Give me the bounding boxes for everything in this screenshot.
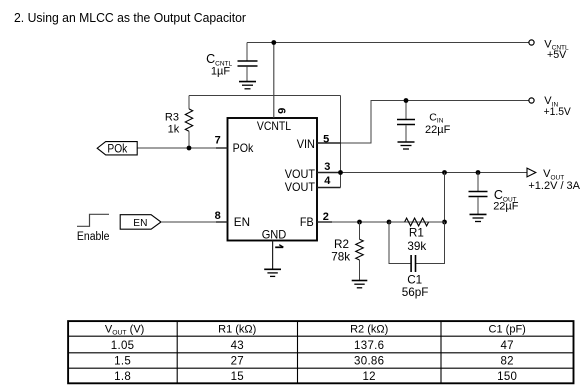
- svg-text:43: 43: [231, 340, 244, 352]
- label C1 56pF: [402, 273, 429, 299]
- junction node VOUT / R1C1 riser: [442, 170, 447, 175]
- wire VIN (pin 5): [317, 101, 529, 144]
- pin number 1 (rotated): [275, 245, 283, 248]
- capacitor C_OUT: [469, 173, 488, 215]
- svg-text:6: 6: [275, 108, 287, 114]
- label C_CNTL: [206, 52, 232, 78]
- svg-text:+1.5V: +1.5V: [544, 106, 572, 118]
- junction node FB / C1 left: [387, 220, 392, 225]
- svg-text:VIN: VIN: [297, 137, 315, 151]
- IC U1 body: [228, 118, 318, 241]
- svg-text:150: 150: [497, 371, 517, 383]
- Enable step waveform: [77, 214, 109, 226]
- junction node FB / R1 right: [442, 220, 447, 225]
- wire POk (pin 7): [137, 147, 217, 149]
- svg-text:Enable: Enable: [77, 231, 110, 243]
- svg-text:VOUT: VOUT: [285, 180, 316, 194]
- capacitor C_IN: [397, 101, 415, 142]
- wire VIN stub at pin 5: [317, 142, 341, 144]
- resistor R1: [389, 218, 445, 226]
- label R3 1k: [165, 112, 180, 136]
- svg-text:82: 82: [500, 356, 513, 368]
- table: parameter values: [68, 321, 573, 383]
- label C_OUT 22uF: [493, 188, 519, 212]
- wire VOUT stub at pin 4: [317, 187, 341, 189]
- wire FB stub at pin 2: [317, 221, 332, 223]
- svg-text:22µF: 22µF: [425, 124, 451, 136]
- svg-text:27: 27: [231, 356, 244, 368]
- svg-text:EN: EN: [133, 217, 147, 229]
- svg-text:15: 15: [231, 371, 244, 383]
- label R2 78k: [331, 238, 350, 264]
- junction node POk / R3: [187, 146, 192, 151]
- svg-text:POk: POk: [107, 143, 127, 155]
- svg-text:R1 (kΩ): R1 (kΩ): [218, 323, 256, 335]
- wire VCNTL rail: [247, 42, 529, 44]
- svg-text:FB: FB: [300, 215, 314, 229]
- wire R3 top rail: [189, 95, 341, 97]
- svg-text:1k: 1k: [168, 123, 180, 135]
- ground (C_OUT): [470, 214, 487, 221]
- svg-text:R3: R3: [165, 112, 179, 124]
- ground (C_IN): [398, 142, 415, 149]
- svg-text:39k: 39k: [407, 240, 426, 253]
- svg-text:R2: R2: [334, 238, 349, 251]
- wire VOUT rail (pin 3): [317, 172, 527, 174]
- label R1 39k: [407, 227, 426, 253]
- svg-text:47: 47: [500, 340, 513, 352]
- svg-text:R2 (kΩ): R2 (kΩ): [350, 323, 388, 335]
- svg-text:EN: EN: [234, 215, 250, 229]
- svg-text:3: 3: [324, 161, 330, 173]
- ground (C_CNTL): [239, 82, 256, 89]
- junction node VIN rail / C_IN: [404, 98, 409, 103]
- svg-text:R1: R1: [409, 227, 424, 240]
- capacitor C1 branch wires: [389, 222, 445, 264]
- terminal V_CNTL: [529, 40, 534, 45]
- svg-text:VCNTL: VCNTL: [257, 119, 291, 133]
- junction node VOUT / C_OUT: [476, 170, 481, 175]
- svg-text:1.5: 1.5: [114, 356, 131, 368]
- POk output flag: [97, 142, 137, 156]
- wire riser R3 rail to VOUT/pin4: [340, 96, 342, 188]
- label V_OUT +1.2V / 3A: [528, 168, 580, 192]
- wire EN (pin 8): [161, 221, 217, 223]
- table row 2 values: [114, 356, 514, 368]
- resistor R2: [356, 222, 364, 280]
- junction node FB / R2: [357, 220, 362, 225]
- junction node VOUT / R3 riser: [338, 170, 343, 175]
- wire EN stub at pin 8: [216, 221, 228, 223]
- capacitor C_CNTL: [238, 43, 258, 82]
- resistor R3: [185, 96, 192, 149]
- svg-text:30.86: 30.86: [354, 356, 384, 368]
- svg-text:GND: GND: [262, 227, 287, 241]
- label C_IN 22uF: [425, 111, 451, 136]
- table row 1 values: [111, 340, 514, 352]
- EN input flag: [120, 215, 161, 230]
- wire pin6 riser: [273, 43, 275, 119]
- svg-text:VOUT: VOUT: [285, 167, 316, 181]
- svg-text:POk: POk: [233, 141, 255, 155]
- junction node VCNTL rail / pin6: [271, 40, 276, 45]
- label V_IN +1.5V: [544, 95, 572, 118]
- svg-text:2: 2: [323, 211, 329, 223]
- svg-text:78k: 78k: [331, 251, 350, 264]
- svg-text:C1: C1: [407, 273, 422, 286]
- svg-text:+5V: +5V: [547, 49, 567, 61]
- svg-text:1.05: 1.05: [111, 340, 135, 352]
- svg-text:1.8: 1.8: [114, 371, 131, 383]
- svg-text:4: 4: [324, 175, 331, 187]
- svg-text:1µF: 1µF: [211, 66, 230, 78]
- capacitor C1 plates: [411, 255, 415, 272]
- label V_CNTL +5V: [544, 38, 569, 61]
- svg-text:22µF: 22µF: [493, 201, 519, 213]
- wire GND (pin 1): [272, 241, 274, 270]
- svg-text:2. Using an MLCC as the Output: 2. Using an MLCC as the Output Capacitor: [14, 10, 247, 25]
- terminal V_IN: [529, 98, 534, 103]
- svg-text:8: 8: [215, 210, 221, 222]
- svg-text:137.6: 137.6: [354, 340, 384, 352]
- svg-text:12: 12: [362, 371, 375, 383]
- wire riser VOUT to FB (R1C1 right): [444, 173, 446, 223]
- ground (IC GND): [264, 269, 281, 276]
- wire FB (pin 2): [317, 221, 445, 223]
- svg-text:56pF: 56pF: [402, 286, 429, 299]
- svg-text:C1 (pF): C1 (pF): [489, 323, 526, 335]
- ground (R2): [352, 281, 368, 288]
- svg-text:+1.2V / 3A: +1.2V / 3A: [528, 180, 580, 192]
- svg-text:7: 7: [215, 135, 221, 147]
- table row 3 values: [114, 371, 517, 383]
- wire POk stub at pin 7: [216, 147, 228, 149]
- VOUT arrow terminal: [527, 168, 536, 177]
- wire VOUT stub at pin 3: [317, 172, 341, 174]
